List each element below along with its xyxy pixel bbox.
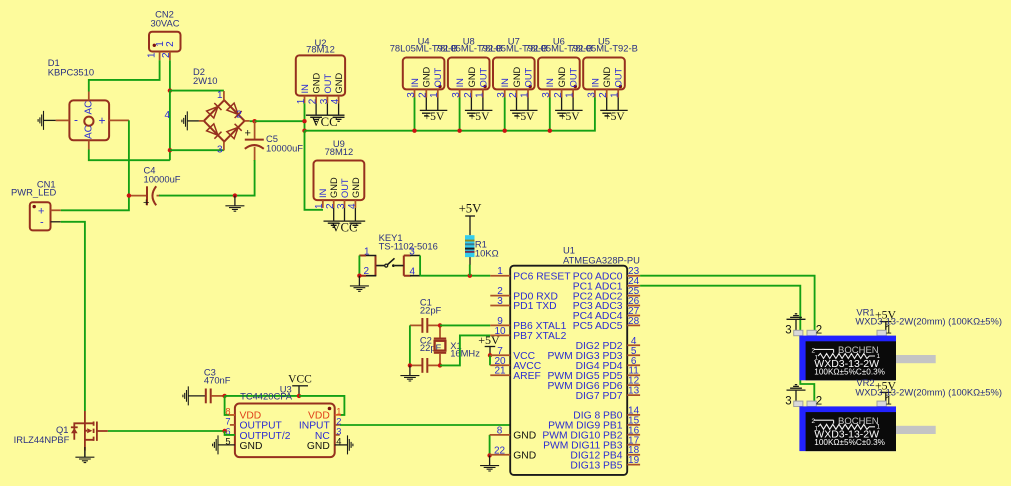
potentiometer VR2 WXD3-13-2W [785, 377, 1002, 451]
svg-text:IN: IN [590, 78, 600, 87]
svg-text:3: 3 [406, 92, 417, 98]
svg-text:3: 3 [409, 247, 415, 258]
wire C4 to ground node [159, 195, 235, 197]
wire CN1 minus to Q1 drain [61, 222, 85, 411]
node junction C3 [222, 394, 226, 398]
svg-text:22: 22 [494, 445, 506, 456]
svg-text:ATMEGA328P-PU: ATMEGA328P-PU [563, 255, 640, 266]
svg-text:1: 1 [364, 246, 370, 257]
U1 left pin labels [513, 271, 571, 461]
svg-text:2: 2 [553, 92, 564, 98]
+5V symbol R1 [459, 201, 483, 235]
svg-text:3: 3 [496, 92, 507, 98]
U2 GND/VCC symbol [306, 103, 345, 129]
ground at Q1 [75, 447, 94, 463]
wire C3 node to U3 VDD left [225, 396, 235, 415]
svg-text:BOCHEN: BOCHEN [838, 345, 879, 356]
svg-text:GND: GND [422, 66, 432, 87]
svg-text:WXD3-13-2W(20mm) (100KΩ±5%): WXD3-13-2W(20mm) (100KΩ±5%) [855, 387, 1002, 398]
svg-text:8: 8 [225, 406, 230, 416]
wire D1 bottom stub to rail [89, 150, 98, 161]
svg-text:AC: AC [84, 125, 95, 139]
svg-text:+5V: +5V [604, 110, 625, 123]
svg-text:2: 2 [165, 41, 176, 47]
regulator U5 78L05ML-T92-B [570, 36, 638, 123]
node junction ground rail [233, 193, 237, 197]
svg-text:1: 1 [497, 266, 503, 277]
node junction XTAL2 [438, 363, 442, 367]
U1 left pin numbers [494, 266, 506, 456]
svg-text:GND: GND [240, 441, 263, 452]
svg-text:GND: GND [329, 177, 339, 198]
wire XTAL2 to U1 pin10 [440, 335, 490, 365]
svg-text:DIG7 PD7: DIG7 PD7 [576, 391, 623, 402]
node junction U2 in [302, 119, 306, 123]
+5V symbol VR1 [875, 308, 897, 332]
capacitor C3 470nF [188, 367, 230, 404]
svg-text:GND: GND [513, 451, 536, 462]
VCC symbol U3 [288, 373, 312, 396]
svg-text:OUT: OUT [523, 67, 533, 87]
svg-text:78L05ML-T92-B: 78L05ML-T92-B [570, 43, 638, 54]
svg-text:1: 1 [885, 395, 891, 407]
inverted ground VR2 pin3 [787, 385, 806, 403]
svg-text:IN: IN [318, 189, 328, 198]
svg-text:28: 28 [628, 316, 640, 327]
regulator U6 78L05ML-T92-B [525, 36, 593, 133]
svg-text:10KΩ: 10KΩ [475, 248, 499, 259]
wire U4 IN [414, 98, 416, 131]
svg-text:IRLZ44NPBF: IRLZ44NPBF [14, 434, 70, 445]
node junction C4 left [127, 193, 131, 197]
svg-text:AC: AC [84, 101, 95, 115]
wire down left rail [169, 91, 171, 161]
U1 right pin labels [542, 271, 622, 471]
svg-text:2: 2 [816, 395, 822, 407]
wire Q1 source to ground [84, 451, 86, 457]
regulator U2 78M12 [296, 37, 345, 104]
svg-text:GND: GND [312, 73, 322, 94]
svg-text:PB7 XTAL2: PB7 XTAL2 [513, 331, 566, 342]
node junction R1 bottom [468, 274, 472, 278]
wire XTAL1 to U1 pin9 [440, 324, 490, 326]
svg-text:IN: IN [300, 84, 310, 93]
wire node to pin6 [225, 431, 235, 435]
inverted ground VR1 pin3 [787, 314, 806, 332]
svg-text:3: 3 [336, 203, 347, 209]
node junction U4 [412, 129, 416, 133]
wire U2 IN down [304, 103, 306, 131]
svg-text:8: 8 [497, 425, 503, 436]
wire CN2 pin2 down [169, 60, 171, 90]
svg-text:30VAC: 30VAC [150, 18, 179, 29]
ground at C3 [183, 386, 188, 405]
CN2 pin 2 [161, 41, 176, 61]
svg-text:-: - [40, 216, 44, 228]
wire R1 to node [469, 265, 471, 276]
svg-text:1: 1 [429, 92, 440, 98]
svg-text:1: 1 [217, 90, 223, 101]
ground at D1 minus [38, 111, 56, 130]
svg-text:10000uF: 10000uF [144, 174, 181, 185]
svg-text:3: 3 [541, 92, 552, 98]
svg-text:2: 2 [598, 92, 609, 98]
svg-text:+5V: +5V [469, 110, 490, 123]
svg-text:2: 2 [236, 110, 242, 121]
svg-text:2: 2 [161, 52, 172, 58]
svg-text:+5V: +5V [559, 110, 580, 123]
svg-text:OUT: OUT [478, 67, 488, 87]
svg-text:GND: GND [351, 177, 361, 198]
svg-text:3: 3 [497, 296, 503, 307]
svg-text:2: 2 [816, 325, 822, 337]
wire +5V to AVCC [489, 355, 491, 365]
regulator U9 78M12 [314, 138, 365, 209]
node junction VCC [297, 394, 301, 398]
svg-text:3: 3 [785, 395, 791, 407]
node junction at D2 pin3 rail [168, 148, 172, 152]
svg-text:1: 1 [314, 203, 325, 209]
regulator U8 78L05ML-T92-B [435, 36, 503, 133]
ground at C4/C5 [225, 196, 244, 212]
svg-text:+: + [143, 197, 149, 209]
svg-text:16MHz: 16MHz [450, 347, 480, 358]
capacitor C1 22pF [410, 297, 442, 333]
svg-text:1: 1 [474, 92, 485, 98]
svg-text:13: 13 [628, 386, 640, 397]
svg-text:IN: IN [500, 78, 510, 87]
wire VCC to U3 VDD right [299, 396, 344, 415]
svg-text:1: 1 [885, 325, 891, 337]
connector CN2 30VAC [149, 9, 181, 52]
svg-text:100KΩ±5%C±0.3%: 100KΩ±5%C±0.3% [814, 438, 885, 447]
svg-text:1: 1 [147, 52, 158, 58]
wire down to U9 [305, 131, 324, 210]
ground under KEY1 [350, 276, 369, 292]
svg-text:VCC: VCC [288, 373, 312, 385]
svg-text:DIG13 PB5: DIG13 PB5 [570, 460, 622, 471]
svg-text:VCC: VCC [311, 115, 337, 129]
svg-text:3: 3 [336, 426, 341, 436]
svg-text:+: + [99, 113, 106, 127]
svg-text:10000uF: 10000uF [266, 143, 303, 154]
svg-text:2: 2 [812, 418, 816, 425]
svg-text:2: 2 [418, 92, 429, 98]
svg-text:2: 2 [325, 203, 336, 209]
U4 gnd +5V symbol [420, 98, 448, 123]
svg-text:WXD3-13-2W(20mm) (100KΩ±5%): WXD3-13-2W(20mm) (100KΩ±5%) [855, 316, 1002, 327]
svg-text:4: 4 [410, 266, 416, 277]
svg-text:21: 21 [494, 366, 506, 377]
svg-text:2: 2 [508, 92, 519, 98]
node junction bus [302, 129, 306, 133]
svg-text:GND: GND [602, 66, 612, 87]
U1 right pin stubs [627, 276, 640, 465]
svg-text:3: 3 [586, 92, 597, 98]
svg-text:3: 3 [451, 92, 462, 98]
+5V symbol VR2 [875, 378, 897, 402]
ground at D2 pin 4 [182, 111, 199, 130]
svg-text:2: 2 [812, 347, 816, 354]
svg-text:2: 2 [336, 416, 341, 426]
capacitor C4 10000uF [129, 165, 181, 210]
svg-text:78M12: 78M12 [306, 44, 335, 55]
svg-text:OUT: OUT [340, 178, 350, 198]
CN2 pin 1 [147, 41, 166, 61]
svg-text:GND: GND [334, 73, 344, 94]
svg-text:PWR_LED: PWR_LED [11, 187, 57, 198]
capacitor C5 10000uF [245, 121, 304, 161]
svg-text:OUT: OUT [323, 74, 333, 94]
wire D1 plus down to CN1 [61, 120, 129, 210]
svg-text:100KΩ±5%C±0.3%: 100KΩ±5%C±0.3% [814, 367, 885, 376]
svg-text:PC5 ADC5: PC5 ADC5 [573, 321, 623, 332]
svg-text:GND: GND [512, 66, 522, 87]
U1 left pin stubs [490, 276, 511, 455]
svg-text:KBPC3510: KBPC3510 [48, 67, 94, 78]
wire U1 pin23 to VR1 [640, 276, 815, 331]
wire U1 pin24 to VR2 [640, 286, 814, 402]
ground under C1/C2 [400, 365, 419, 381]
wire C1 left down to C2 [409, 325, 411, 365]
svg-text:-: - [74, 113, 78, 127]
ground at U3 pin5 [213, 435, 218, 454]
node junction KEY1 gnd [357, 274, 361, 278]
svg-text:22pF: 22pF [420, 304, 442, 315]
svg-text:7: 7 [225, 416, 230, 426]
svg-text:10: 10 [494, 326, 506, 337]
wire to D2 pin 1 [170, 90, 224, 92]
bridge D2 2W10 [165, 66, 250, 156]
wire C5 bottom to gnd rail [235, 160, 255, 196]
connector CN1 PWR_LED [11, 179, 61, 231]
svg-text:1: 1 [519, 92, 530, 98]
node junction CN2pin2/D2 [168, 88, 172, 92]
wire U1 gnd pins [489, 435, 491, 456]
wire D1 bottom to rail [98, 159, 170, 161]
svg-text:19: 19 [628, 455, 640, 466]
svg-text:IN: IN [545, 78, 555, 87]
svg-text:PD1 TXD: PD1 TXD [513, 301, 556, 312]
svg-text:2: 2 [364, 266, 370, 277]
wire C3 to VCC node [225, 395, 299, 397]
svg-text:VCC: VCC [331, 220, 357, 234]
svg-text:+: + [245, 128, 251, 140]
svg-text:1: 1 [565, 92, 576, 98]
svg-text:4: 4 [347, 203, 358, 209]
potentiometer VR1 WXD3-13-2W [785, 306, 1002, 380]
svg-text:470nF: 470nF [204, 375, 231, 386]
node junction C2 left [408, 363, 412, 367]
svg-text:+5V: +5V [459, 201, 483, 215]
svg-text:GND: GND [557, 66, 567, 87]
svg-text:+5V: +5V [514, 110, 535, 123]
wire CN2 pin1 to D1 AC top [89, 60, 160, 91]
svg-text:OUT: OUT [433, 67, 443, 87]
node junction XTAL1 [438, 323, 442, 327]
wire 30V bus to regulators [305, 100, 595, 130]
regulator U7 78L05ML-T92-B [480, 36, 548, 133]
wire U3 INPUT to U1 pin15 [340, 424, 511, 426]
svg-text:IN: IN [455, 78, 465, 87]
svg-text:GND: GND [467, 66, 477, 87]
wire D2 pin2 to C5 [250, 120, 255, 122]
svg-text:AREF: AREF [513, 371, 540, 382]
transistor Q1 IRLZ44NPBF [14, 411, 108, 451]
wire C5 to U2 IN [255, 120, 305, 122]
svg-text:TS-1102-5016: TS-1102-5016 [379, 241, 438, 252]
ground under U1 [480, 455, 499, 471]
svg-text:2: 2 [463, 92, 474, 98]
svg-text:4: 4 [336, 436, 341, 446]
ground at U3 pin4 [348, 435, 353, 454]
wire KEY1 to R1 [420, 275, 490, 277]
resistor R1 10KΩ [465, 235, 499, 265]
svg-text:OUT: OUT [614, 67, 624, 87]
svg-text:OUT: OUT [569, 67, 579, 87]
svg-text:5: 5 [225, 436, 230, 446]
U9 GND/VCC symbol [324, 208, 366, 235]
node junction C5 top [252, 119, 256, 123]
rectifier D1 KBPC3510 [48, 57, 129, 150]
svg-text:PC6 RESET: PC6 RESET [513, 271, 571, 282]
svg-text:GND: GND [513, 431, 536, 442]
capacitor C2 22pF [410, 334, 442, 372]
svg-text:3: 3 [217, 145, 223, 156]
svg-text:BOCHEN: BOCHEN [838, 416, 879, 427]
svg-text:78M12: 78M12 [325, 146, 354, 157]
svg-text:IN: IN [410, 78, 420, 87]
node junction VCC/AVCC [488, 353, 492, 357]
node junction U1 gnd [487, 453, 491, 457]
node junction U3 output [222, 429, 226, 433]
U1 right pin numbers [628, 266, 640, 466]
svg-text:1: 1 [336, 406, 341, 416]
svg-text:+5V: +5V [424, 110, 445, 123]
svg-text:4: 4 [165, 110, 171, 121]
wire Q1 gate to U3 [108, 430, 225, 432]
regulator U4 78L05ML-T92-B [390, 36, 458, 98]
driver U3 TC4420CPA [218, 384, 348, 458]
svg-text:GND: GND [307, 441, 330, 452]
svg-text:3: 3 [319, 98, 330, 104]
switch KEY1 TS-1102-5016 [359, 232, 438, 277]
microcontroller U1 ATMEGA328P-PU [510, 245, 640, 475]
svg-text:2W10: 2W10 [193, 75, 218, 86]
svg-text:2: 2 [308, 98, 319, 104]
svg-text:4: 4 [330, 98, 341, 104]
+5V symbol U1 VCC [478, 333, 500, 356]
svg-text:1: 1 [610, 92, 621, 98]
wire to D2 pin 3 [170, 149, 224, 151]
svg-text:3: 3 [785, 325, 791, 337]
svg-text:TC4420CPA: TC4420CPA [240, 391, 293, 402]
crystal X1 16MHz [434, 325, 480, 365]
